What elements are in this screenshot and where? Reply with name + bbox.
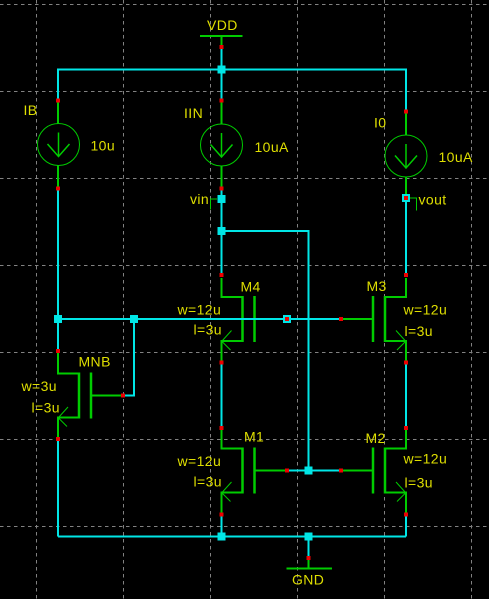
wire VDD rail top xyxy=(58,70,406,113)
pin IB bottom xyxy=(56,187,60,191)
pin M3 drain xyxy=(404,273,408,277)
pin M3 gate xyxy=(339,317,343,321)
transistor M2 xyxy=(341,430,406,513)
power VDD symbol xyxy=(200,36,243,47)
pin M4 source xyxy=(220,361,224,365)
pin M1 source xyxy=(220,513,224,517)
pin M2 source xyxy=(404,513,408,517)
pin I0 top xyxy=(404,110,408,114)
wire ground rail bottom xyxy=(58,536,406,538)
current source I0 xyxy=(385,112,427,198)
svg-text:M3: M3 xyxy=(367,278,387,294)
transistor M1 xyxy=(222,430,288,513)
wire IB column down to MNB drain xyxy=(57,189,59,352)
current source IB xyxy=(38,101,80,189)
pin M3 source xyxy=(404,361,408,365)
pin M2 drain xyxy=(404,426,408,430)
svg-text:w=12u: w=12u xyxy=(177,453,222,469)
svg-text:vin: vin xyxy=(190,191,209,207)
wire IIN bottom vin node xyxy=(221,189,223,278)
node vin xyxy=(218,195,226,203)
wire M2 source drop xyxy=(405,515,407,537)
svg-text:l=3u: l=3u xyxy=(405,474,433,490)
transistor M3 xyxy=(341,278,406,361)
pin M1 gate xyxy=(285,469,289,473)
pin VDD xyxy=(220,45,224,49)
svg-text:l=3u: l=3u xyxy=(194,322,222,338)
svg-text:VDD: VDD xyxy=(207,17,238,33)
svg-text:l=3u: l=3u xyxy=(32,400,60,416)
wire M4 source to M1 drain xyxy=(221,363,223,429)
ground GND symbol xyxy=(287,558,333,569)
node vout xyxy=(402,194,410,202)
wire gate row M1 M2 xyxy=(287,470,341,472)
wire vin branch to M1 M2 gates xyxy=(222,231,309,471)
transistor MNB xyxy=(58,353,123,438)
wire gate row M4 M3 xyxy=(58,318,341,320)
node bottom rail GND T xyxy=(305,533,313,541)
pin M2 gate xyxy=(339,469,343,473)
svg-text:GND: GND xyxy=(292,572,324,588)
wire vout to M3 drain xyxy=(405,198,407,276)
wire VDD rail to IIN top xyxy=(221,70,223,101)
svg-text:10uA: 10uA xyxy=(255,139,290,155)
svg-text:l=3u: l=3u xyxy=(194,473,222,489)
node left gate row T xyxy=(54,315,62,323)
wire M3 source to M2 drain xyxy=(405,363,407,429)
wire M1 source drop xyxy=(221,515,223,537)
svg-text:IIN: IIN xyxy=(184,105,203,121)
svg-text:w=3u: w=3u xyxy=(21,378,57,394)
svg-text:IB: IB xyxy=(24,102,38,118)
svg-text:MNB: MNB xyxy=(79,354,111,370)
pin MNB gate xyxy=(121,394,125,398)
node M4 gate junction xyxy=(283,315,291,323)
wire MNB gate route xyxy=(123,319,134,396)
svg-text:w=12u: w=12u xyxy=(403,450,448,466)
node vin branch T xyxy=(218,227,226,235)
node bottom rail M1 T xyxy=(218,533,226,541)
pin IIN top xyxy=(220,99,224,103)
pin GND xyxy=(307,556,311,560)
current source IIN xyxy=(201,101,243,189)
pin I0 bottom vout xyxy=(404,196,408,200)
pin M1 drain xyxy=(220,426,224,430)
net label hook vout xyxy=(410,198,417,211)
svg-text:I0: I0 xyxy=(374,115,386,131)
svg-text:10u: 10u xyxy=(91,138,116,154)
pin MNB drain xyxy=(56,349,60,353)
wire VDD stem to rail xyxy=(221,47,223,70)
node VDD rail junction xyxy=(218,66,226,74)
node MNB gate T xyxy=(130,315,138,323)
pin MNB source xyxy=(56,437,60,441)
node M1 M2 gate T xyxy=(305,467,313,475)
wire MNB source drop xyxy=(57,439,59,537)
pin IB top xyxy=(56,99,60,103)
svg-text:M1: M1 xyxy=(244,429,264,445)
svg-text:vout: vout xyxy=(419,192,447,208)
svg-text:l=3u: l=3u xyxy=(405,323,433,339)
svg-text:M2: M2 xyxy=(366,430,386,446)
svg-text:w=12u: w=12u xyxy=(403,302,448,318)
net label hook vin xyxy=(211,199,218,210)
transistor M4 xyxy=(222,278,288,361)
pin M4 gate xyxy=(285,317,289,321)
svg-text:10uA: 10uA xyxy=(439,149,474,165)
pin IIN bottom xyxy=(220,187,224,191)
svg-text:M4: M4 xyxy=(241,279,261,295)
pin M4 drain xyxy=(220,273,224,277)
wire GND stem xyxy=(308,537,310,559)
svg-text:w=12u: w=12u xyxy=(177,302,222,318)
